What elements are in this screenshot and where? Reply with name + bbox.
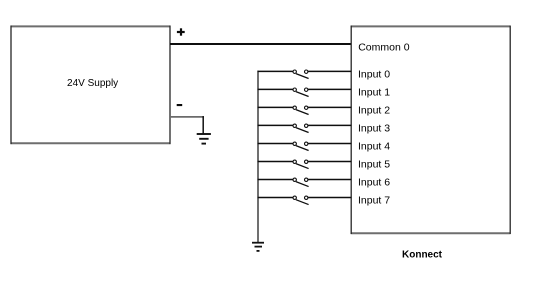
switch S8 <box>257 196 351 205</box>
ground GND1 <box>197 134 211 144</box>
switch S3 <box>257 106 351 114</box>
switch S4 <box>257 124 351 132</box>
ground GND2 <box>252 243 264 251</box>
switch S2 <box>257 88 351 97</box>
module U1 Konnect box <box>351 26 511 234</box>
svg-text:Input 6: Input 6 <box>358 177 390 189</box>
wire - terminal vertical to ground <box>202 116 204 134</box>
switch S7 <box>257 178 351 187</box>
svg-text:Input 5: Input 5 <box>358 159 390 171</box>
switch S5 <box>257 142 351 150</box>
svg-text:Input 7: Input 7 <box>358 195 390 207</box>
svg-text:Input 2: Input 2 <box>358 105 390 117</box>
svg-text:24V Supply: 24V Supply <box>67 78 118 89</box>
wire + terminal to Common 0 <box>170 43 352 45</box>
svg-text:Input 0: Input 0 <box>358 69 390 81</box>
svg-text:Common 0: Common 0 <box>358 42 410 54</box>
switch S1 <box>257 70 351 79</box>
terminal + label <box>177 28 185 35</box>
svg-text:Input 1: Input 1 <box>358 87 390 99</box>
bus wire vertical <box>257 71 259 243</box>
svg-text:Konnect: Konnect <box>402 250 443 261</box>
svg-text:Input 3: Input 3 <box>358 123 390 135</box>
wire - terminal horizontal <box>170 116 204 118</box>
switch S6 <box>257 160 351 169</box>
terminal - label <box>177 104 183 106</box>
power supply PS1 box <box>11 26 171 145</box>
svg-text:Input 4: Input 4 <box>358 141 390 153</box>
